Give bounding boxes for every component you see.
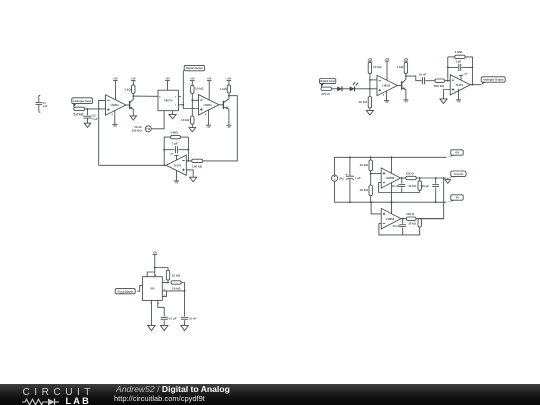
junction cap branch left — [163, 149, 165, 151]
svg-text:555: 555 — [150, 287, 155, 291]
svg-text:100 kΩ: 100 kΩ — [192, 164, 203, 168]
junction input RC node — [87, 108, 89, 110]
ground below C12 — [181, 325, 189, 330]
wire C9 branch — [402, 219, 404, 224]
power -5V at U6 — [456, 100, 461, 104]
resistor R5 1 k&#937; pull-up — [220, 85, 231, 93]
power +5V at 555 — [153, 252, 158, 255]
svg-text:-5V: -5V — [207, 126, 211, 129]
svg-text:1 MΩ: 1 MΩ — [170, 131, 178, 135]
svg-text:5: 5 — [158, 303, 159, 305]
wire R2 to Q1 collector — [132, 94, 134, 97]
capacitor C11 0.1 uF — [161, 317, 177, 321]
op-amp U7 LM358 buffer — [381, 168, 400, 188]
resistor R13 1 M&#937; feedback — [455, 50, 465, 59]
wire U7 V- pin — [391, 183, 393, 202]
wire R17 top — [419, 178, 421, 181]
wire R6 to U4 - input — [186, 160, 191, 162]
wire battery bottom rail — [335, 181, 447, 202]
power -5V at U1 — [112, 113, 118, 128]
voltage source V2 10V — [332, 175, 344, 181]
resistor R18 220 &#937; — [406, 212, 416, 220]
wire Q1 collector to U3 D input — [133, 95, 158, 97]
wire U2 V+ pin — [208, 81, 210, 101]
wire C9 to feedback — [402, 228, 404, 235]
resistor R11 1 k&#937; pull-up — [397, 62, 408, 73]
diode D1 — [337, 86, 342, 91]
svg-text:1 kΩ: 1 kΩ — [124, 87, 131, 91]
wire 555 reset pin jog — [147, 272, 155, 277]
svg-text:220 Ω: 220 Ω — [406, 212, 415, 216]
wire feedback top right U6 — [465, 57, 472, 85]
wire cap branch right U6 — [461, 66, 472, 68]
svg-text:+5V: +5V — [404, 58, 409, 61]
resistor R12 200 k&#937; — [434, 79, 445, 88]
svg-text:10 kΩ: 10 kΩ — [172, 273, 181, 277]
svg-text:7: 7 — [164, 281, 165, 283]
capacitor C3 1 uF feedback — [172, 141, 178, 153]
svg-text:2: 2 — [175, 105, 176, 107]
wire C7 to feedback — [401, 188, 403, 193]
wire feedback left vertical — [187, 137, 189, 161]
wire Q3 emitter to -5V — [405, 93, 407, 100]
wire feedback top U6 — [448, 56, 455, 58]
wire flag to 555 out pin — [137, 286, 142, 292]
svg-text:+5V: +5V — [153, 252, 158, 255]
svg-text:+5V: +5V — [170, 154, 174, 156]
svg-text:+5V: +5V — [190, 78, 195, 81]
svg-text:LM311: LM311 — [204, 103, 213, 107]
svg-text:Clock: Clock — [134, 125, 142, 129]
svg-text:8: 8 — [155, 275, 156, 277]
resistor R21 10 k&#937; — [171, 281, 181, 291]
net flag -5V rail — [447, 195, 464, 203]
wire Q2 collector to R6 — [203, 96, 238, 161]
wire divider mid to U7 + input — [371, 173, 382, 175]
wire RB right to threshold node — [181, 283, 184, 317]
power +5V at R5 — [227, 78, 232, 81]
junction cap branch right — [188, 149, 190, 151]
wire U8 output — [401, 218, 406, 220]
capacitor C2 1 uF — [83, 114, 98, 121]
power +5V at U2 — [207, 78, 212, 81]
resistor R9 10 k&#937; — [368, 62, 382, 73]
junction Q1 collector node — [132, 95, 134, 97]
power +5V at R11 — [404, 58, 409, 61]
svg-text:1 MΩ: 1 MΩ — [455, 50, 463, 54]
clock source V1 500 kHz — [132, 125, 151, 132]
ground at U6 + input — [440, 99, 447, 104]
wire U3 VCC pin to +5V — [167, 81, 169, 91]
junction C6 top — [349, 156, 351, 158]
svg-text:-5V: -5V — [404, 101, 408, 104]
junction ground to U8 wire — [443, 177, 445, 179]
ground below R4 — [189, 128, 196, 132]
junction 555 supply node — [154, 267, 156, 269]
resistor R2 1 k&#937; pull-up — [124, 85, 135, 94]
wire 555 gnd pin — [150, 300, 152, 325]
power -5V at U2 — [205, 113, 211, 129]
power -5V at Q2 emitter — [226, 125, 231, 129]
svg-text:+5V: +5V — [385, 58, 390, 61]
transistor Q3 NPN — [402, 76, 406, 93]
power +5V at U6 — [459, 74, 468, 76]
wire R16 to ground node — [416, 177, 446, 179]
junction U8 output node — [402, 218, 404, 220]
wire R5 to Q2 collector — [228, 93, 230, 96]
wire battery top rail — [335, 157, 447, 175]
wire U1 V- pin — [114, 110, 116, 124]
svg-text:+5V: +5V — [464, 74, 468, 76]
junction divider mid — [370, 173, 372, 175]
junction U4 - node — [188, 160, 190, 162]
junction U7 V- rail — [391, 201, 393, 203]
junction C8 top — [435, 177, 437, 179]
svg-text:1 µF: 1 µF — [456, 59, 462, 63]
junction digital output node — [182, 104, 184, 106]
junction feedback at output — [163, 164, 165, 166]
wire node to U5 - input — [370, 79, 377, 81]
power +5V at U1 — [113, 78, 118, 81]
resistor R1 5.6 k&#937; — [74, 107, 85, 116]
svg-text:-5V: -5V — [455, 196, 459, 200]
wire R8 to D1 — [332, 88, 339, 90]
svg-text:+5V: +5V — [455, 151, 460, 155]
svg-text:0.1 µF: 0.1 µF — [169, 317, 177, 321]
power -5V at U5 — [383, 93, 389, 104]
svg-text:10 kΩ: 10 kΩ — [373, 65, 382, 69]
ground below C2 — [84, 123, 91, 127]
junction R9 to U5 - input — [369, 79, 371, 81]
wire +5V to R5 — [228, 81, 230, 85]
net flag +5V rail — [447, 150, 464, 158]
junction R18 node — [419, 218, 421, 220]
svg-text:10 kΩ: 10 kΩ — [195, 86, 204, 90]
wire divider node to U2 - input — [192, 99, 198, 101]
resistor R15 10 k&#937; — [359, 185, 372, 196]
wire Q3 collector to C4 — [406, 76, 422, 81]
junction discharge node — [167, 282, 169, 284]
junction cap branch left U6 — [447, 67, 449, 69]
svg-text:LM358: LM358 — [386, 176, 395, 180]
junction divider to U2 - input — [191, 99, 193, 101]
resistor R6 100 k&#937; — [192, 159, 203, 168]
power +5V at U3 — [165, 78, 170, 81]
CircuitLab logo wordmark — [23, 387, 95, 398]
wire +5V to 555 — [154, 255, 156, 277]
ground below 555 pin1 — [148, 325, 156, 330]
wire R15 to bottom rail — [370, 196, 372, 203]
wire U8 V+ pin — [391, 202, 393, 214]
wire U4 output to U1 feedback — [99, 164, 166, 166]
resistor R4 10 k&#937; — [181, 116, 194, 124]
wire R11 to Q3 collector — [405, 74, 407, 77]
wire R10 to ground — [369, 108, 371, 110]
wire pin2 link — [162, 291, 166, 297]
net flag Digital Input — [320, 79, 336, 88]
wire U3 GND pin — [172, 111, 174, 115]
junction U7 V+ rail — [391, 156, 393, 158]
op-amp U5 LM311 comparator — [377, 75, 397, 95]
resistor R19 10 k&#937; feedback — [408, 219, 421, 227]
net flag Analogue Output — [481, 77, 505, 85]
wire node to Digital Output flag — [182, 70, 184, 105]
op-amp U8 LM358 buffer — [381, 208, 401, 229]
power +5V at U5 — [385, 58, 390, 61]
capacitor C5 1 uF feedback — [456, 59, 462, 71]
wire threshold to pins 6 — [162, 290, 184, 292]
svg-text:+5V: +5V — [227, 78, 232, 81]
svg-text:10 nF: 10 nF — [393, 224, 401, 228]
svg-text:-5V: -5V — [227, 126, 231, 129]
wire +5V to R11 — [405, 61, 407, 62]
wire R14 to divider mid — [370, 171, 372, 185]
junction cap branch right U6 — [472, 67, 474, 69]
wire U5 V- pin — [386, 91, 388, 101]
junction U6 output feedback — [472, 84, 474, 86]
op-amp U2 LM311 comparator — [199, 95, 219, 115]
wire R12 to U6 - input — [445, 80, 451, 82]
svg-text:10 kΩ: 10 kΩ — [172, 286, 181, 290]
capacitor C8 100 uF — [420, 184, 439, 188]
power -5V at Q3 emitter — [403, 100, 408, 104]
svg-text:220 Ω: 220 Ω — [406, 172, 415, 176]
wire rail to R14 — [370, 157, 372, 160]
svg-text:10 kΩ: 10 kΩ — [359, 188, 368, 192]
net flag Analogue Input — [72, 98, 93, 108]
ground at U4 + input — [190, 177, 197, 182]
svg-text:Clock Output: Clock Output — [117, 289, 133, 293]
svg-text:10V: 10V — [339, 176, 344, 180]
wire U1 output to Q1 base — [126, 104, 130, 106]
op-amp U6 TL072 — [450, 75, 470, 95]
power -5V at U4 — [174, 181, 179, 185]
svg-text:10 nF: 10 nF — [419, 72, 427, 76]
svg-text:TL072: TL072 — [455, 83, 463, 87]
wire C12 to ground — [184, 320, 186, 325]
svg-text:10 nF: 10 nF — [189, 317, 197, 321]
resistor R20 10 k&#937; — [166, 270, 180, 280]
wire feedback left vertical U6 — [447, 57, 449, 81]
junction threshold node — [184, 290, 186, 292]
wire U8 + input — [371, 202, 381, 214]
svg-text:+5V: +5V — [368, 58, 373, 61]
svg-text:10 kΩ: 10 kΩ — [359, 163, 368, 167]
wire Q2 emitter to -5V — [228, 112, 230, 125]
resistor R17 10 k&#937; feedback — [408, 181, 421, 191]
junction U7 output node — [401, 177, 403, 179]
wire C6 bottom lead — [349, 179, 351, 202]
wire cap branch left U6 — [448, 66, 458, 68]
wire C8 top lead — [435, 178, 437, 184]
wire U6 V+ pin — [460, 75, 462, 80]
wire U3 Q stub — [178, 95, 180, 97]
junction C6 bottom — [349, 201, 351, 203]
wire pin7 stub — [162, 282, 168, 284]
wire cap feedback branch right — [178, 149, 188, 151]
wire U7 - input feedback — [379, 183, 420, 193]
capacitor C4 10 nF coupling — [419, 72, 427, 84]
resistor R16 220 &#937; — [406, 172, 417, 180]
junction U8 + input rail — [370, 201, 372, 203]
capacitor C9 10 nF — [393, 224, 407, 228]
ground symbol on ground net — [445, 178, 451, 183]
wire U4 + input to ground — [186, 170, 193, 177]
svg-text:Digital Input: Digital Input — [320, 79, 335, 83]
resistor R3 10 k&#937; — [191, 85, 204, 93]
wire U4 V+ pin — [175, 155, 177, 160]
svg-text:1 µF: 1 µF — [355, 176, 361, 180]
ground below C11 — [160, 325, 168, 330]
svg-text:100 µF: 100 µF — [420, 184, 429, 188]
ground at U3 — [169, 114, 176, 118]
wire R18 to node — [416, 218, 444, 220]
wire U2 output to Q2 base — [219, 104, 224, 106]
junction U6 - node — [447, 80, 449, 82]
wire U5 V+ pin — [386, 61, 388, 81]
transistor Q1 NPN — [130, 96, 134, 112]
svg-text:LM358: LM358 — [386, 217, 395, 221]
wire +5V to R9 — [369, 61, 371, 62]
wire U2 V- pin — [208, 110, 210, 125]
svg-text:+5V: +5V — [165, 78, 170, 81]
wire ground net down to U8 output node — [420, 178, 444, 219]
svg-text:10 nF: 10 nF — [392, 184, 400, 188]
svg-text:10 kΩ: 10 kΩ — [358, 100, 367, 104]
svg-text:5.6 kΩ: 5.6 kΩ — [74, 112, 84, 116]
junction Q3 collector node — [405, 75, 407, 77]
wire node to U2 + input — [183, 105, 198, 109]
wire feedback top right-to-left — [180, 136, 188, 138]
wire R4 to ground — [191, 124, 193, 127]
svg-text:-5V: -5V — [385, 101, 389, 104]
power +5V at R3 divider — [190, 78, 195, 81]
svg-text:Analogue Input: Analogue Input — [73, 99, 92, 103]
wire +5V to R2 — [132, 81, 134, 85]
wire R1 to comparator U1 + input — [85, 108, 106, 110]
svg-text:74HC74: 74HC74 — [164, 100, 173, 103]
wire D1 to D2 — [342, 88, 351, 90]
capacitor C12 10 nF timing — [181, 317, 197, 321]
svg-text:-5V: -5V — [113, 125, 117, 128]
svg-text:10 kΩ: 10 kΩ — [408, 221, 416, 225]
svg-text:-5V: -5V — [174, 182, 178, 185]
svg-text:500 kHz: 500 kHz — [132, 129, 143, 133]
wire feedback top left — [164, 137, 170, 165]
svg-text:1 µF: 1 µF — [43, 105, 48, 108]
wire C8 bottom lead — [435, 188, 437, 203]
svg-text:LM311: LM311 — [382, 84, 391, 88]
resistor R8 270 &#937; — [321, 87, 332, 96]
wire RA to discharge node — [167, 280, 169, 283]
capacitor C1 1 uF unconnected — [36, 95, 48, 112]
svg-text:+5V: +5V — [131, 78, 136, 81]
svg-text:4: 4 — [383, 93, 385, 96]
wire cap feedback branch left — [164, 149, 174, 151]
wire U6 output to flag — [470, 84, 481, 86]
net flag Clock Output — [115, 289, 136, 294]
junction C8 bottom rail — [435, 201, 437, 203]
svg-text:Analogue Output: Analogue Output — [483, 78, 504, 82]
svg-text:200 kΩ: 200 kΩ — [434, 84, 445, 88]
wire top rail to +5V flag tail — [445, 156, 447, 158]
wire U8 - input feedback — [379, 224, 420, 235]
wire U6 V- pin — [458, 89, 460, 100]
wire U7 output — [401, 177, 406, 179]
wire +5V to R3 — [191, 81, 193, 86]
svg-text:Ground: Ground — [454, 172, 464, 176]
capacitor C7 10 nF — [392, 184, 406, 188]
capacitor C6 1 uF electrolytic — [345, 174, 361, 181]
power +5V at R2 — [131, 78, 136, 81]
power +5V at U4 — [170, 154, 179, 156]
svg-text:TL072: TL072 — [173, 163, 181, 167]
net flag Digital Output — [183, 65, 204, 70]
wire C7 branch — [401, 178, 403, 184]
photodiode D2 with light arrows — [350, 82, 359, 91]
wire 555 ctrl pin — [158, 300, 164, 316]
svg-text:-5V: -5V — [457, 101, 461, 104]
junction ground node — [419, 177, 421, 179]
svg-text:1 µF: 1 µF — [172, 141, 178, 145]
wire integrator feedback to U1 - input — [99, 100, 106, 165]
svg-text:4: 4 — [205, 113, 207, 116]
wire U3 clock pin to V1 — [151, 111, 164, 129]
svg-text:1 kΩ: 1 kΩ — [220, 87, 227, 91]
flip-flop U3 74HC74 — [158, 90, 178, 111]
svg-text:10 kΩ: 10 kΩ — [181, 118, 190, 122]
transistor Q2 NPN — [223, 96, 229, 113]
svg-text:+5V: +5V — [207, 78, 212, 81]
junction R14 top — [370, 156, 372, 158]
svg-text:10 kΩ: 10 kΩ — [408, 184, 416, 188]
junction Q2 collector node — [228, 95, 230, 97]
wire C6 top lead — [349, 157, 351, 176]
svg-text:LM311: LM311 — [111, 103, 120, 107]
junction U8 V+ rail — [391, 201, 393, 203]
ground at Q1 emitter — [130, 116, 137, 120]
wire C11 to ground — [163, 320, 165, 325]
resistor R10 10 k&#937; — [358, 97, 371, 109]
svg-text:+5V: +5V — [113, 78, 118, 81]
net flag Ground — [447, 171, 466, 178]
svg-text:270 Ω: 270 Ω — [321, 92, 330, 96]
wire Q1 emitter to ground — [132, 113, 134, 116]
wire R17 to feedback wire — [419, 190, 421, 192]
wire node to C2 — [87, 109, 89, 115]
svg-text:5: 5 — [175, 96, 176, 98]
junction photodiode divider node — [369, 88, 371, 90]
wire D2 to divider node — [354, 88, 377, 90]
resistor R7 1 M&#937; feedback — [170, 131, 180, 139]
svg-text:Digital Output: Digital Output — [186, 66, 203, 70]
wire C2 to ground — [87, 118, 89, 123]
wire U7 V+ pin — [391, 157, 393, 173]
op-amp U1 LM311 comparator — [106, 95, 126, 115]
resistor R14 10 k&#937; — [359, 160, 372, 171]
op-amp U4 TL072 integrator — [166, 155, 186, 175]
junction R15 bottom — [370, 201, 372, 203]
timer U9 555 — [140, 274, 165, 305]
wire U6 + input to ground — [444, 90, 451, 99]
wire C4 to R12 — [425, 80, 435, 82]
wire R3 to divider node — [191, 94, 193, 117]
power +5V at R9 — [368, 58, 373, 61]
ground below R10 — [366, 110, 373, 115]
CircuitLab logo schematic squiggle: resistor zigzag + diode — [21, 397, 71, 405]
wire R9 to node — [369, 74, 371, 97]
wire supply to RA — [155, 268, 168, 271]
